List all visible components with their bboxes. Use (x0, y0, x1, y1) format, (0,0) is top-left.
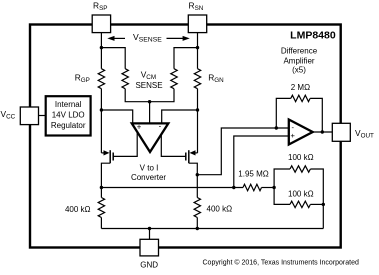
resistor RGN (194, 69, 200, 89)
chip boundary / shunt bus (30, 25, 341, 248)
LDO regulator U2 (46, 96, 91, 135)
svg-text:100 kΩ: 100 kΩ (288, 153, 314, 162)
wire 100k bottom right (310, 203, 323, 205)
svg-text:-: - (159, 122, 162, 131)
op-amp U3 difference amplifier (289, 120, 313, 145)
wire node A to 100k top (274, 169, 290, 188)
resistor 100k bottom (290, 201, 310, 207)
wire GND tap (149, 229, 151, 240)
svg-text:2 MΩ: 2 MΩ (291, 83, 310, 92)
wire feedback right (310, 98, 322, 132)
wire RGP to Q1 source (100, 89, 102, 153)
svg-text:1.95 MΩ: 1.95 MΩ (238, 169, 268, 178)
node 100k join (322, 203, 325, 206)
wire RGN to Q2 source (197, 89, 199, 153)
wire diff amp output to VOUT (313, 131, 333, 133)
wire Q2 node to diff amp inverting input (197, 128, 288, 175)
node Q2 drain (196, 173, 199, 176)
svg-text:Difference: Difference (281, 47, 318, 56)
wire ground rail (101, 228, 323, 230)
svg-text:SENSE: SENSE (135, 81, 162, 90)
svg-text:+: + (137, 122, 142, 131)
node GND tap (148, 227, 151, 230)
VSENSE arrow right (167, 36, 190, 41)
resistor 400k right (194, 198, 200, 229)
svg-text:400 kΩ: 400 kΩ (207, 205, 233, 214)
svg-text:100 kΩ: 100 kΩ (288, 190, 314, 199)
wire node A to 100k bottom (274, 188, 290, 205)
label V to I Converter (131, 164, 166, 183)
op-amp U1 V-to-I (132, 122, 169, 152)
wire RGP node to V2I plus input (101, 110, 132, 124)
wire RSP to RGP (100, 33, 102, 69)
terminal GND (140, 239, 159, 256)
wire RSN to RGN (197, 33, 199, 69)
wire V2I edge riser right to Q2 gate (161, 130, 186, 156)
node VCM tap (148, 100, 151, 103)
node RGN bottom (196, 108, 199, 111)
node RSP sense (100, 46, 103, 49)
svg-text:Internal: Internal (55, 100, 82, 109)
terminal RSN (188, 15, 206, 33)
svg-text:GND: GND (140, 260, 158, 269)
wire rail to diff amp plus input (234, 136, 289, 188)
wire Q1 node rail (101, 187, 243, 189)
svg-text:Regulator: Regulator (51, 121, 86, 130)
terminal RSP (92, 15, 110, 33)
svg-text:Copyright © 2016, Texas Instru: Copyright © 2016, Texas Instruments Inco… (203, 258, 359, 266)
resistor RGP (98, 69, 104, 89)
svg-text:LMP8480: LMP8480 (290, 30, 336, 42)
svg-text:Amplifier: Amplifier (283, 56, 314, 65)
node output (321, 130, 324, 133)
wire 100k top right down (310, 169, 323, 229)
resistor 2 Mohm (291, 95, 310, 101)
svg-text:(x5): (x5) (292, 66, 306, 75)
node RSN sense (196, 46, 199, 49)
wire to node A (262, 187, 275, 189)
node feedback (275, 126, 278, 129)
terminal VCC (20, 107, 38, 125)
node RGP bottom (100, 108, 103, 111)
terminal VOUT (332, 123, 350, 141)
wire V2I edge riser left to Q1 gate (113, 130, 137, 156)
wire Q1 drain down (101, 163, 110, 187)
resistor 1.95 Mohm (243, 184, 262, 190)
svg-text:Converter: Converter (131, 173, 166, 182)
node A (272, 186, 275, 189)
transistor Q1 (101, 150, 113, 163)
node plus tap (232, 186, 235, 189)
wire branch to VCM right (174, 48, 198, 69)
wire VCM tap to V2I (149, 102, 151, 124)
transistor Q2 (186, 150, 198, 163)
resistor 100k top (290, 166, 310, 172)
node 400k right bottom (196, 227, 199, 230)
VSENSE arrow left (107, 36, 125, 41)
label Difference Amplifier x5 (281, 47, 318, 75)
resistor VCM sense right (171, 69, 177, 89)
wire feedback left (276, 98, 291, 128)
svg-text:14V LDO: 14V LDO (52, 111, 85, 120)
node Q1 drain (100, 186, 103, 189)
wire RGN node to V2I minus input (162, 110, 198, 124)
svg-text:V to I: V to I (140, 164, 159, 173)
svg-text:400 kΩ: 400 kΩ (65, 205, 91, 214)
svg-text:+: + (291, 131, 296, 140)
wire VCM divider join (125, 89, 174, 102)
wire Q2 drain down (189, 163, 198, 197)
resistor VCM sense left (122, 69, 128, 89)
wire branch to VCM left (101, 48, 125, 69)
wire VCC to LDO (39, 115, 46, 117)
resistor 400k left (98, 188, 104, 229)
